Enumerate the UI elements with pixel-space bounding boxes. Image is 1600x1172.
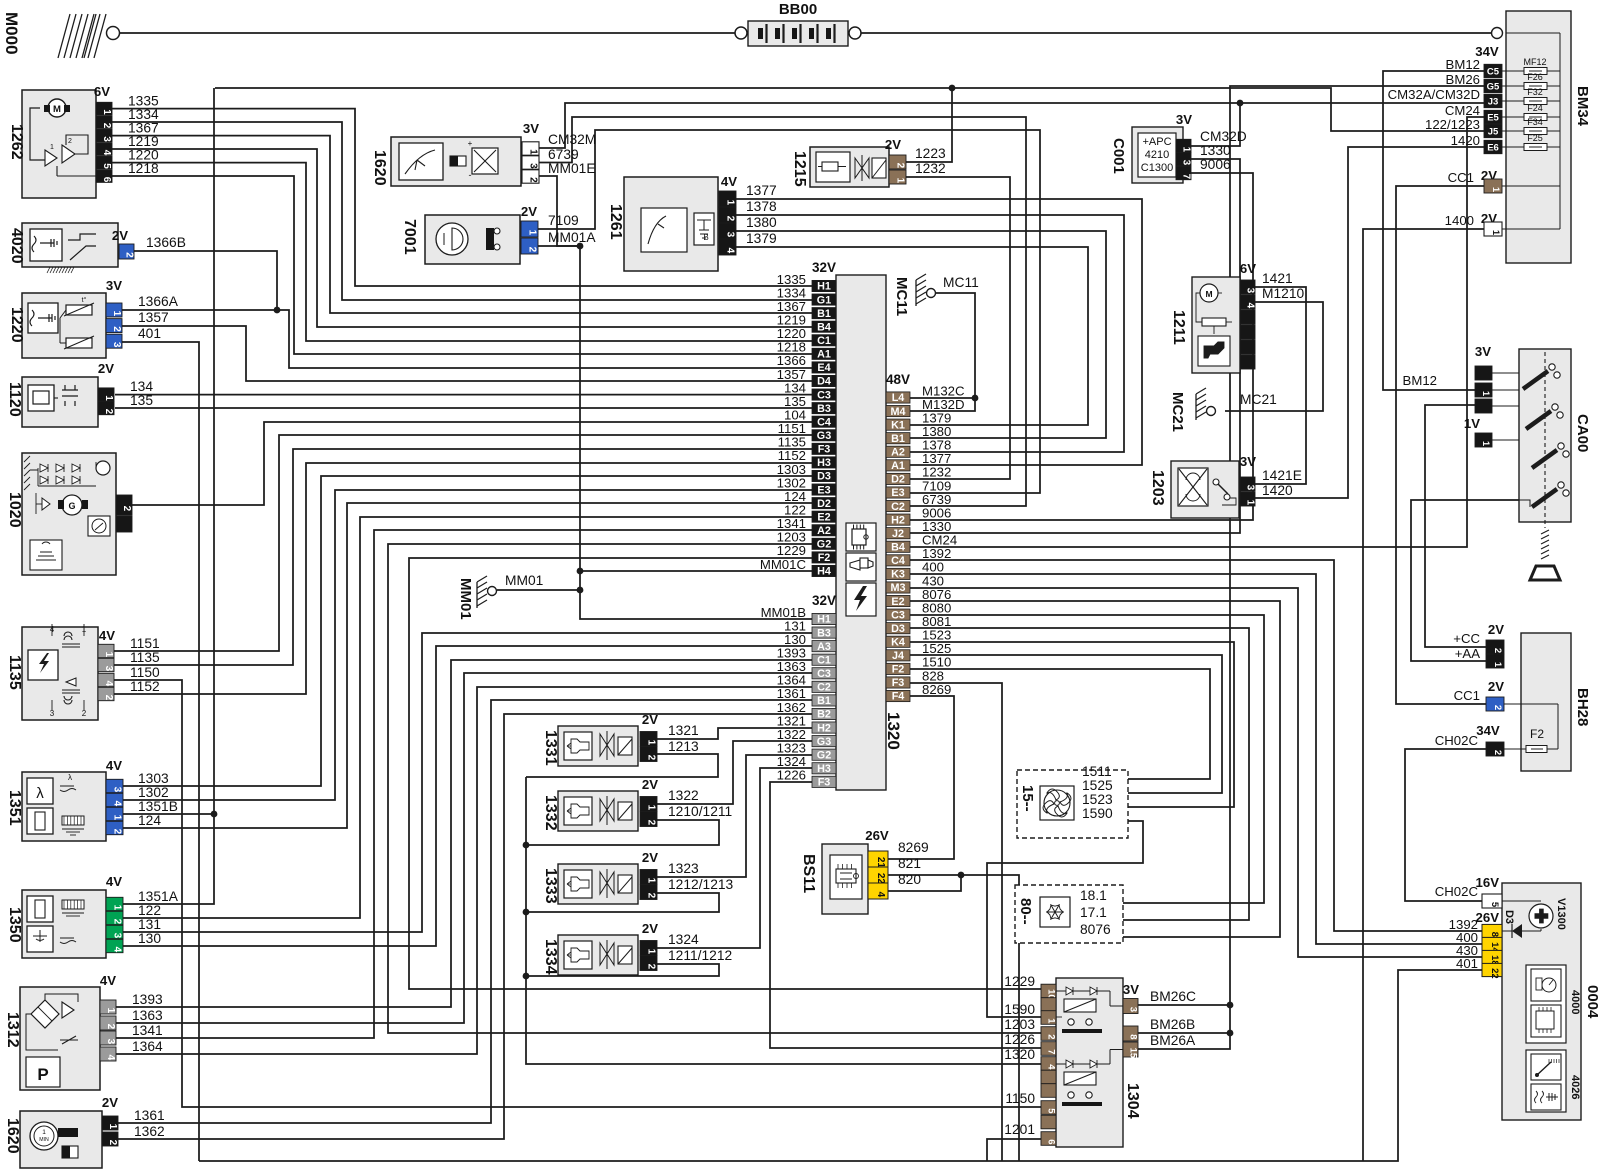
wire 1220 1262.5 to ECU C1 [112, 163, 812, 341]
component 1215 fuel vapour valve [791, 137, 946, 187]
ground M000 [2, 12, 120, 58]
svg-text:124: 124 [138, 813, 161, 828]
svg-text:17.1: 17.1 [1080, 905, 1107, 920]
svg-text:C2: C2 [891, 501, 905, 513]
component 1262 supply/control unit [8, 84, 159, 198]
svg-text:BM12: BM12 [1403, 373, 1437, 388]
svg-text:G5: G5 [1487, 82, 1500, 93]
svg-text:1620: 1620 [371, 150, 388, 186]
svg-text:1211: 1211 [1170, 310, 1187, 345]
svg-text:F32: F32 [1527, 87, 1543, 97]
svg-text:2: 2 [107, 1140, 118, 1146]
svg-text:H2: H2 [891, 514, 905, 526]
svg-text:1351: 1351 [6, 790, 23, 826]
svg-text:1420: 1420 [1451, 133, 1480, 148]
wire 1400 from BM34 [1363, 229, 1484, 1161]
svg-text:P: P [37, 1065, 48, 1084]
svg-text:2: 2 [105, 1024, 116, 1030]
wire BM26 bus to BM34 G5 [1138, 86, 1484, 1049]
svg-text:G3: G3 [817, 736, 831, 748]
wire CH02C BH28 to 0004.5 [1405, 749, 1504, 901]
svg-text:M: M [1205, 289, 1212, 299]
svg-text:J4: J4 [892, 650, 904, 662]
svg-text:1334: 1334 [542, 939, 559, 975]
connector BM34 engine fusebox [1388, 11, 1591, 263]
svg-text:2V: 2V [1488, 622, 1504, 637]
component 1620 vehicle speed sensor bottom [4, 1095, 165, 1168]
svg-text:1364: 1364 [132, 1039, 163, 1054]
svg-text:1420: 1420 [1262, 483, 1293, 498]
wire +CC from CA00 to BH28 [1425, 405, 1504, 647]
wire 1321 1331.1 to ECU H2b [657, 728, 812, 739]
svg-text:1378: 1378 [746, 199, 777, 214]
svg-text:1: 1 [103, 652, 114, 658]
svg-text:4: 4 [875, 892, 886, 898]
svg-text:0004: 0004 [1584, 985, 1600, 1019]
svg-text:32V: 32V [812, 593, 836, 608]
air conditioning box 80-- [1015, 885, 1123, 943]
svg-text:2: 2 [112, 829, 123, 835]
svg-text:3: 3 [111, 342, 122, 348]
svg-text:2: 2 [1492, 750, 1503, 755]
junction node (277,310) [274, 307, 281, 314]
svg-text:32V: 32V [812, 260, 836, 275]
svg-text:CM32M: CM32M [548, 132, 596, 147]
svg-text:A1: A1 [817, 349, 831, 361]
component BS11 engine fusebox [800, 828, 929, 914]
svg-text:3V: 3V [523, 121, 539, 136]
svg-text:7109: 7109 [548, 213, 579, 228]
svg-text:H2: H2 [817, 722, 831, 734]
svg-text:D3: D3 [1503, 910, 1515, 924]
svg-text:1379: 1379 [746, 231, 777, 246]
wire 1302 to ECU E3 [123, 490, 812, 800]
svg-text:MC11: MC11 [893, 277, 910, 316]
svg-text:C2: C2 [817, 682, 831, 694]
junction node (214,814) [211, 811, 218, 818]
ECU 1320 upper-left pin column 32V [760, 260, 836, 578]
svg-text:MF12: MF12 [1523, 57, 1546, 67]
label 1320 [884, 712, 903, 750]
wire 1421/1421E 1211 to 1203 [1254, 287, 1306, 484]
junction node (961,875) [958, 872, 965, 879]
svg-text:D3: D3 [817, 471, 831, 483]
svg-text:C4: C4 [817, 416, 831, 428]
svg-text:131: 131 [138, 917, 161, 932]
wire 17.1 ECU D3r to 80-- [910, 628, 1249, 920]
svg-text:1351B: 1351B [138, 799, 178, 814]
svg-text:C1: C1 [817, 335, 831, 347]
svg-text:CM24: CM24 [1445, 103, 1480, 118]
svg-text:7: 7 [1046, 1049, 1057, 1054]
component 1203 inertia switch [1149, 454, 1302, 518]
svg-text:C3: C3 [817, 668, 831, 680]
svg-text:1: 1 [111, 311, 122, 317]
junction node (1230,1005) [1227, 1002, 1234, 1009]
wire BB00 supply right [855, 32, 1493, 34]
wire 828 ECU F3r [910, 683, 1002, 1161]
svg-text:1361: 1361 [134, 1108, 165, 1123]
svg-text:1215: 1215 [791, 151, 808, 187]
wire 1420 1203 to BM34 E6 [1254, 147, 1484, 498]
connector BH28 [1435, 622, 1591, 771]
svg-text:M3: M3 [891, 582, 906, 594]
svg-text:1210/1211: 1210/1211 [668, 804, 732, 819]
svg-text:F2: F2 [818, 552, 831, 564]
wire BM26B branch [1138, 1032, 1230, 1034]
svg-text:MM01: MM01 [457, 578, 474, 620]
svg-text:A2: A2 [891, 446, 905, 458]
svg-text:2: 2 [646, 964, 657, 970]
connector 0004 instrument panel [1435, 875, 1600, 1120]
svg-text:2: 2 [82, 709, 87, 718]
wire 122/1223 rail to BM34 J5 [215, 88, 1484, 131]
svg-text:8076: 8076 [1080, 922, 1111, 937]
svg-text:1: 1 [725, 200, 736, 206]
svg-text:1150: 1150 [1005, 1091, 1035, 1106]
svg-text:1: 1 [895, 178, 906, 184]
svg-text:820: 820 [898, 872, 921, 887]
svg-text:2V: 2V [642, 850, 658, 865]
svg-text:MC21: MC21 [1240, 392, 1277, 407]
svg-text:H3: H3 [817, 763, 831, 775]
svg-text:BM12: BM12 [1446, 57, 1480, 72]
svg-text:λ: λ [68, 773, 72, 782]
wire 1392 ECU C4 to 0004.8 [910, 560, 1482, 931]
wire 1151 to ECU G3 [114, 435, 812, 651]
svg-text:B4: B4 [891, 541, 905, 553]
wire 1229 ECU F2 to 1304.10 [409, 558, 1041, 989]
wire M132C branch [910, 397, 975, 399]
wire 1324 1334.1 to ECU H3b [657, 768, 812, 948]
svg-text:2: 2 [112, 919, 123, 925]
svg-text:3: 3 [112, 933, 123, 939]
svg-text:3: 3 [1245, 485, 1256, 491]
svg-text:1: 1 [1490, 230, 1501, 236]
wire 820 from BS11.4 [884, 875, 961, 891]
svg-text:D3: D3 [891, 623, 905, 635]
svg-text:15--: 15-- [1019, 785, 1036, 812]
component 7001 horn [401, 204, 596, 264]
svg-text:1323: 1323 [668, 861, 699, 876]
svg-text:CC1: CC1 [1448, 170, 1474, 185]
svg-text:2: 2 [646, 820, 657, 826]
svg-text:6V: 6V [94, 84, 110, 99]
svg-text:F34: F34 [1527, 117, 1543, 127]
connector CA00 ignition switch [1403, 344, 1591, 580]
svg-text:MC11: MC11 [943, 275, 979, 290]
svg-text:4: 4 [725, 248, 736, 254]
svg-text:B3: B3 [817, 403, 831, 415]
component 4020 immobiliser antenna [8, 223, 186, 273]
svg-text:1: 1 [42, 1129, 46, 1136]
wire MM01C ECU H4 to bus [580, 570, 812, 572]
svg-text:6V: 6V [1240, 261, 1256, 276]
component 1350 lambda sensor downstream [6, 874, 179, 958]
svg-text:4026: 4026 [1569, 1075, 1581, 1099]
svg-text:2V: 2V [102, 1095, 118, 1110]
svg-text:6: 6 [1046, 1139, 1057, 1144]
svg-text:1: 1 [105, 1008, 116, 1014]
svg-text:G2: G2 [817, 749, 831, 761]
svg-text:B2: B2 [817, 709, 831, 721]
svg-text:4210: 4210 [1145, 149, 1169, 161]
svg-text:C5: C5 [1487, 67, 1500, 78]
injector 1334 [542, 921, 732, 975]
svg-text:1218: 1218 [128, 161, 159, 176]
svg-text:1: 1 [527, 230, 538, 236]
svg-text:A1: A1 [891, 460, 905, 472]
svg-text:1: 1 [103, 395, 114, 401]
wire 1223 from 1215.2 [906, 88, 952, 162]
svg-text:8: 8 [1489, 932, 1500, 937]
svg-text:1261: 1261 [607, 204, 624, 240]
svg-text:4020: 4020 [8, 228, 25, 264]
svg-text:4: 4 [101, 150, 112, 156]
svg-text:1229: 1229 [1004, 974, 1035, 989]
svg-text:5: 5 [1489, 902, 1500, 908]
svg-text:1366B: 1366B [146, 235, 186, 250]
svg-text:2V: 2V [521, 204, 537, 219]
wire 1322 1332.1 to ECU G3b [657, 741, 812, 804]
svg-text:4: 4 [112, 947, 123, 953]
svg-text:2V: 2V [1488, 679, 1504, 694]
wire +AA from CA00 to BH28 [1411, 500, 1519, 661]
ground MC11 [893, 274, 979, 316]
svg-text:1: 1 [1480, 441, 1491, 447]
svg-text:+CC: +CC [1453, 631, 1480, 646]
component 1312 manifold pressure sensor [4, 973, 163, 1090]
wire BB00 supply left [119, 32, 741, 34]
svg-text:1120: 1120 [6, 382, 23, 417]
svg-text:2V: 2V [642, 777, 658, 792]
svg-text:3: 3 [1128, 1007, 1139, 1012]
junction node (526,912) [523, 909, 530, 916]
svg-text:M: M [53, 104, 61, 115]
wire 1362 to ECU B2b [118, 714, 812, 1139]
svg-text:J3: J3 [1488, 97, 1499, 108]
svg-text:H1: H1 [817, 281, 831, 293]
wire 1523 ECU K4 to 15-- [910, 642, 1234, 807]
svg-text:B: B [703, 233, 708, 242]
wire 1366A to ECU E4 [122, 310, 812, 368]
battery junction BB00 [735, 1, 861, 46]
svg-text:1400: 1400 [1445, 213, 1474, 228]
svg-text:1331: 1331 [542, 730, 559, 766]
svg-text:D2: D2 [891, 474, 905, 486]
wire 7109 to ECU E3 [537, 130, 1040, 493]
svg-text:C4: C4 [891, 555, 905, 567]
svg-text:1: 1 [646, 740, 657, 746]
svg-text:CC1: CC1 [1454, 688, 1480, 703]
svg-text:5: 5 [1046, 1108, 1057, 1114]
svg-text:BM26: BM26 [1446, 72, 1480, 87]
svg-text:1: 1 [112, 905, 123, 911]
svg-text:7: 7 [1181, 174, 1192, 180]
wire 1334 1262.2 to ECU G1 [112, 122, 812, 300]
svg-text:1525: 1525 [1082, 778, 1113, 793]
svg-text:D2: D2 [817, 498, 831, 510]
svg-text:3: 3 [103, 666, 114, 672]
svg-text:4: 4 [105, 1055, 116, 1061]
wire 1212/1213 from 1333.2 [526, 893, 719, 912]
svg-text:1590: 1590 [1004, 1002, 1035, 1017]
injector 1332 [542, 777, 732, 831]
svg-text:1212/1213: 1212/1213 [668, 877, 734, 892]
svg-text:1V: 1V [1464, 416, 1480, 431]
svg-text:CM32A/CM32D: CM32A/CM32D [1388, 87, 1480, 102]
svg-text:1211/1212: 1211/1212 [668, 948, 732, 963]
svg-text:F2: F2 [1530, 727, 1544, 741]
wire 131 to ECU B3b [123, 633, 812, 932]
wire 1201 1304.6 to rail [987, 1139, 1041, 1161]
ECU 1320 body [836, 275, 886, 790]
component 1304 double relay [1004, 974, 1196, 1147]
svg-text:1: 1 [1492, 662, 1503, 668]
svg-text:t°: t° [82, 296, 87, 304]
svg-text:1380: 1380 [746, 215, 777, 230]
svg-text:MC21: MC21 [1169, 392, 1186, 432]
svg-text:2: 2 [103, 409, 114, 415]
svg-text:G3: G3 [817, 430, 831, 442]
svg-text:1: 1 [528, 149, 539, 155]
svg-text:H1: H1 [817, 614, 831, 626]
svg-text:CH02C: CH02C [1435, 884, 1479, 899]
svg-text:A3: A3 [817, 641, 831, 653]
svg-text:E3: E3 [817, 484, 830, 496]
component 1135 ignition coil module [6, 624, 160, 720]
svg-text:2: 2 [121, 506, 132, 512]
svg-text:1203: 1203 [1004, 1017, 1035, 1032]
wire 1363 to ECU C3b [116, 673, 812, 1023]
svg-text:1: 1 [1181, 147, 1192, 153]
component 1220 coolant temp sensor [8, 278, 179, 358]
wire 1341 to ECU A2 [116, 530, 812, 1038]
wire MM01E from 1620 [539, 176, 580, 246]
wire 1380 1261.3 to ECU B1r [736, 231, 1106, 438]
wire 1525 ECU J4 to 15-- [910, 655, 1222, 793]
svg-text:V1300: V1300 [1555, 898, 1567, 930]
svg-text:BS11: BS11 [800, 854, 817, 893]
svg-text:4000: 4000 [1569, 990, 1581, 1014]
svg-text:E5: E5 [1487, 113, 1499, 124]
wire 135 to ECU B3 [115, 407, 812, 409]
wire 18.1 ECU C3r to 80-- [910, 615, 1264, 903]
wire 1351A vertical net [123, 88, 214, 904]
svg-text:1020: 1020 [6, 492, 23, 528]
svg-text:3: 3 [1245, 288, 1256, 294]
svg-text:1312: 1312 [4, 1012, 21, 1048]
svg-text:M000: M000 [2, 12, 21, 55]
junction node (975,398) [972, 395, 979, 402]
svg-text:G2: G2 [817, 539, 831, 551]
svg-text:2: 2 [101, 123, 112, 129]
svg-text:H4: H4 [817, 566, 831, 578]
svg-text:B1: B1 [817, 308, 831, 320]
svg-text:1324: 1324 [668, 932, 699, 947]
svg-text:1: 1 [50, 144, 54, 151]
svg-text:2: 2 [111, 326, 122, 332]
component C001 diagnostic connector [1110, 112, 1247, 183]
svg-text:A2: A2 [817, 525, 831, 537]
svg-text:3: 3 [528, 163, 539, 169]
svg-text:1: 1 [107, 1124, 118, 1130]
svg-text:2: 2 [68, 138, 72, 145]
svg-text:80--: 80-- [1017, 898, 1034, 925]
svg-text:8269: 8269 [898, 840, 929, 855]
svg-text:4: 4 [1245, 303, 1256, 309]
svg-text:2: 2 [1046, 1034, 1057, 1039]
svg-text:1203: 1203 [1149, 470, 1166, 506]
wire MM01A from 7001 [537, 245, 580, 247]
svg-text:18.1: 18.1 [1080, 888, 1107, 903]
svg-text:4V: 4V [100, 973, 116, 988]
wire 1364 to ECU C2b [116, 687, 812, 1054]
svg-text:134: 134 [130, 379, 153, 394]
ground MC21 [1169, 388, 1277, 432]
wire M132C/M132D to MC11 [910, 293, 975, 411]
wire bottom rail 401 to 0004.22 [199, 970, 1482, 1161]
svg-text:122: 122 [138, 903, 161, 918]
svg-text:1: 1 [101, 109, 112, 115]
svg-text:1: 1 [1490, 187, 1501, 193]
svg-text:MM01C: MM01C [760, 557, 807, 572]
wire 1320 injector bus to 1304.4 [526, 777, 1041, 1064]
svg-text:MM01: MM01 [505, 573, 543, 588]
wire 430 ECU M3 to 0004.18 [910, 588, 1482, 957]
ECU 1320 chip icon [846, 523, 876, 551]
svg-text:F3: F3 [892, 677, 905, 689]
wire 134 to ECU C3 [115, 394, 812, 396]
wire CC1 BM34 to BH28 [1396, 186, 1504, 704]
svg-text:+APC: +APC [1142, 136, 1171, 148]
svg-text:1: 1 [1046, 1018, 1057, 1024]
component 1020 alternator [6, 453, 132, 575]
svg-text:401: 401 [1456, 956, 1478, 971]
svg-text:B1: B1 [891, 433, 905, 445]
svg-text:BM26A: BM26A [1150, 1033, 1196, 1048]
svg-text:CM32D: CM32D [1200, 129, 1247, 144]
svg-text:C1: C1 [817, 654, 831, 666]
svg-text:-: - [469, 170, 472, 180]
svg-text:1332: 1332 [542, 795, 559, 831]
svg-text:3V: 3V [1240, 454, 1256, 469]
wire 1213 from 1331.2 [526, 754, 718, 777]
svg-text:6739: 6739 [548, 147, 579, 162]
svg-text:4: 4 [1046, 1064, 1057, 1070]
svg-text:F4: F4 [892, 691, 905, 703]
svg-text:3: 3 [101, 136, 112, 142]
svg-text:B3: B3 [817, 627, 831, 639]
svg-text:K3: K3 [891, 569, 905, 581]
svg-text:2V: 2V [885, 137, 901, 152]
svg-text:G1: G1 [817, 294, 831, 306]
svg-text:1232: 1232 [915, 161, 946, 176]
svg-text:3: 3 [725, 232, 736, 238]
svg-text:+: + [468, 139, 473, 148]
svg-text:2V: 2V [98, 361, 114, 376]
wire 1361 to ECU B1b [118, 700, 812, 1123]
svg-text:1321: 1321 [668, 723, 699, 738]
svg-text:5: 5 [101, 163, 112, 169]
svg-text:1363: 1363 [132, 1008, 163, 1023]
junction node (580,590) [577, 587, 584, 594]
svg-text:1: 1 [1480, 391, 1491, 397]
wire 401 from 1220.3 down [122, 342, 199, 1161]
svg-text:8: 8 [1128, 1034, 1139, 1039]
svg-text:1350: 1350 [6, 907, 23, 943]
svg-text:401: 401 [138, 326, 161, 341]
